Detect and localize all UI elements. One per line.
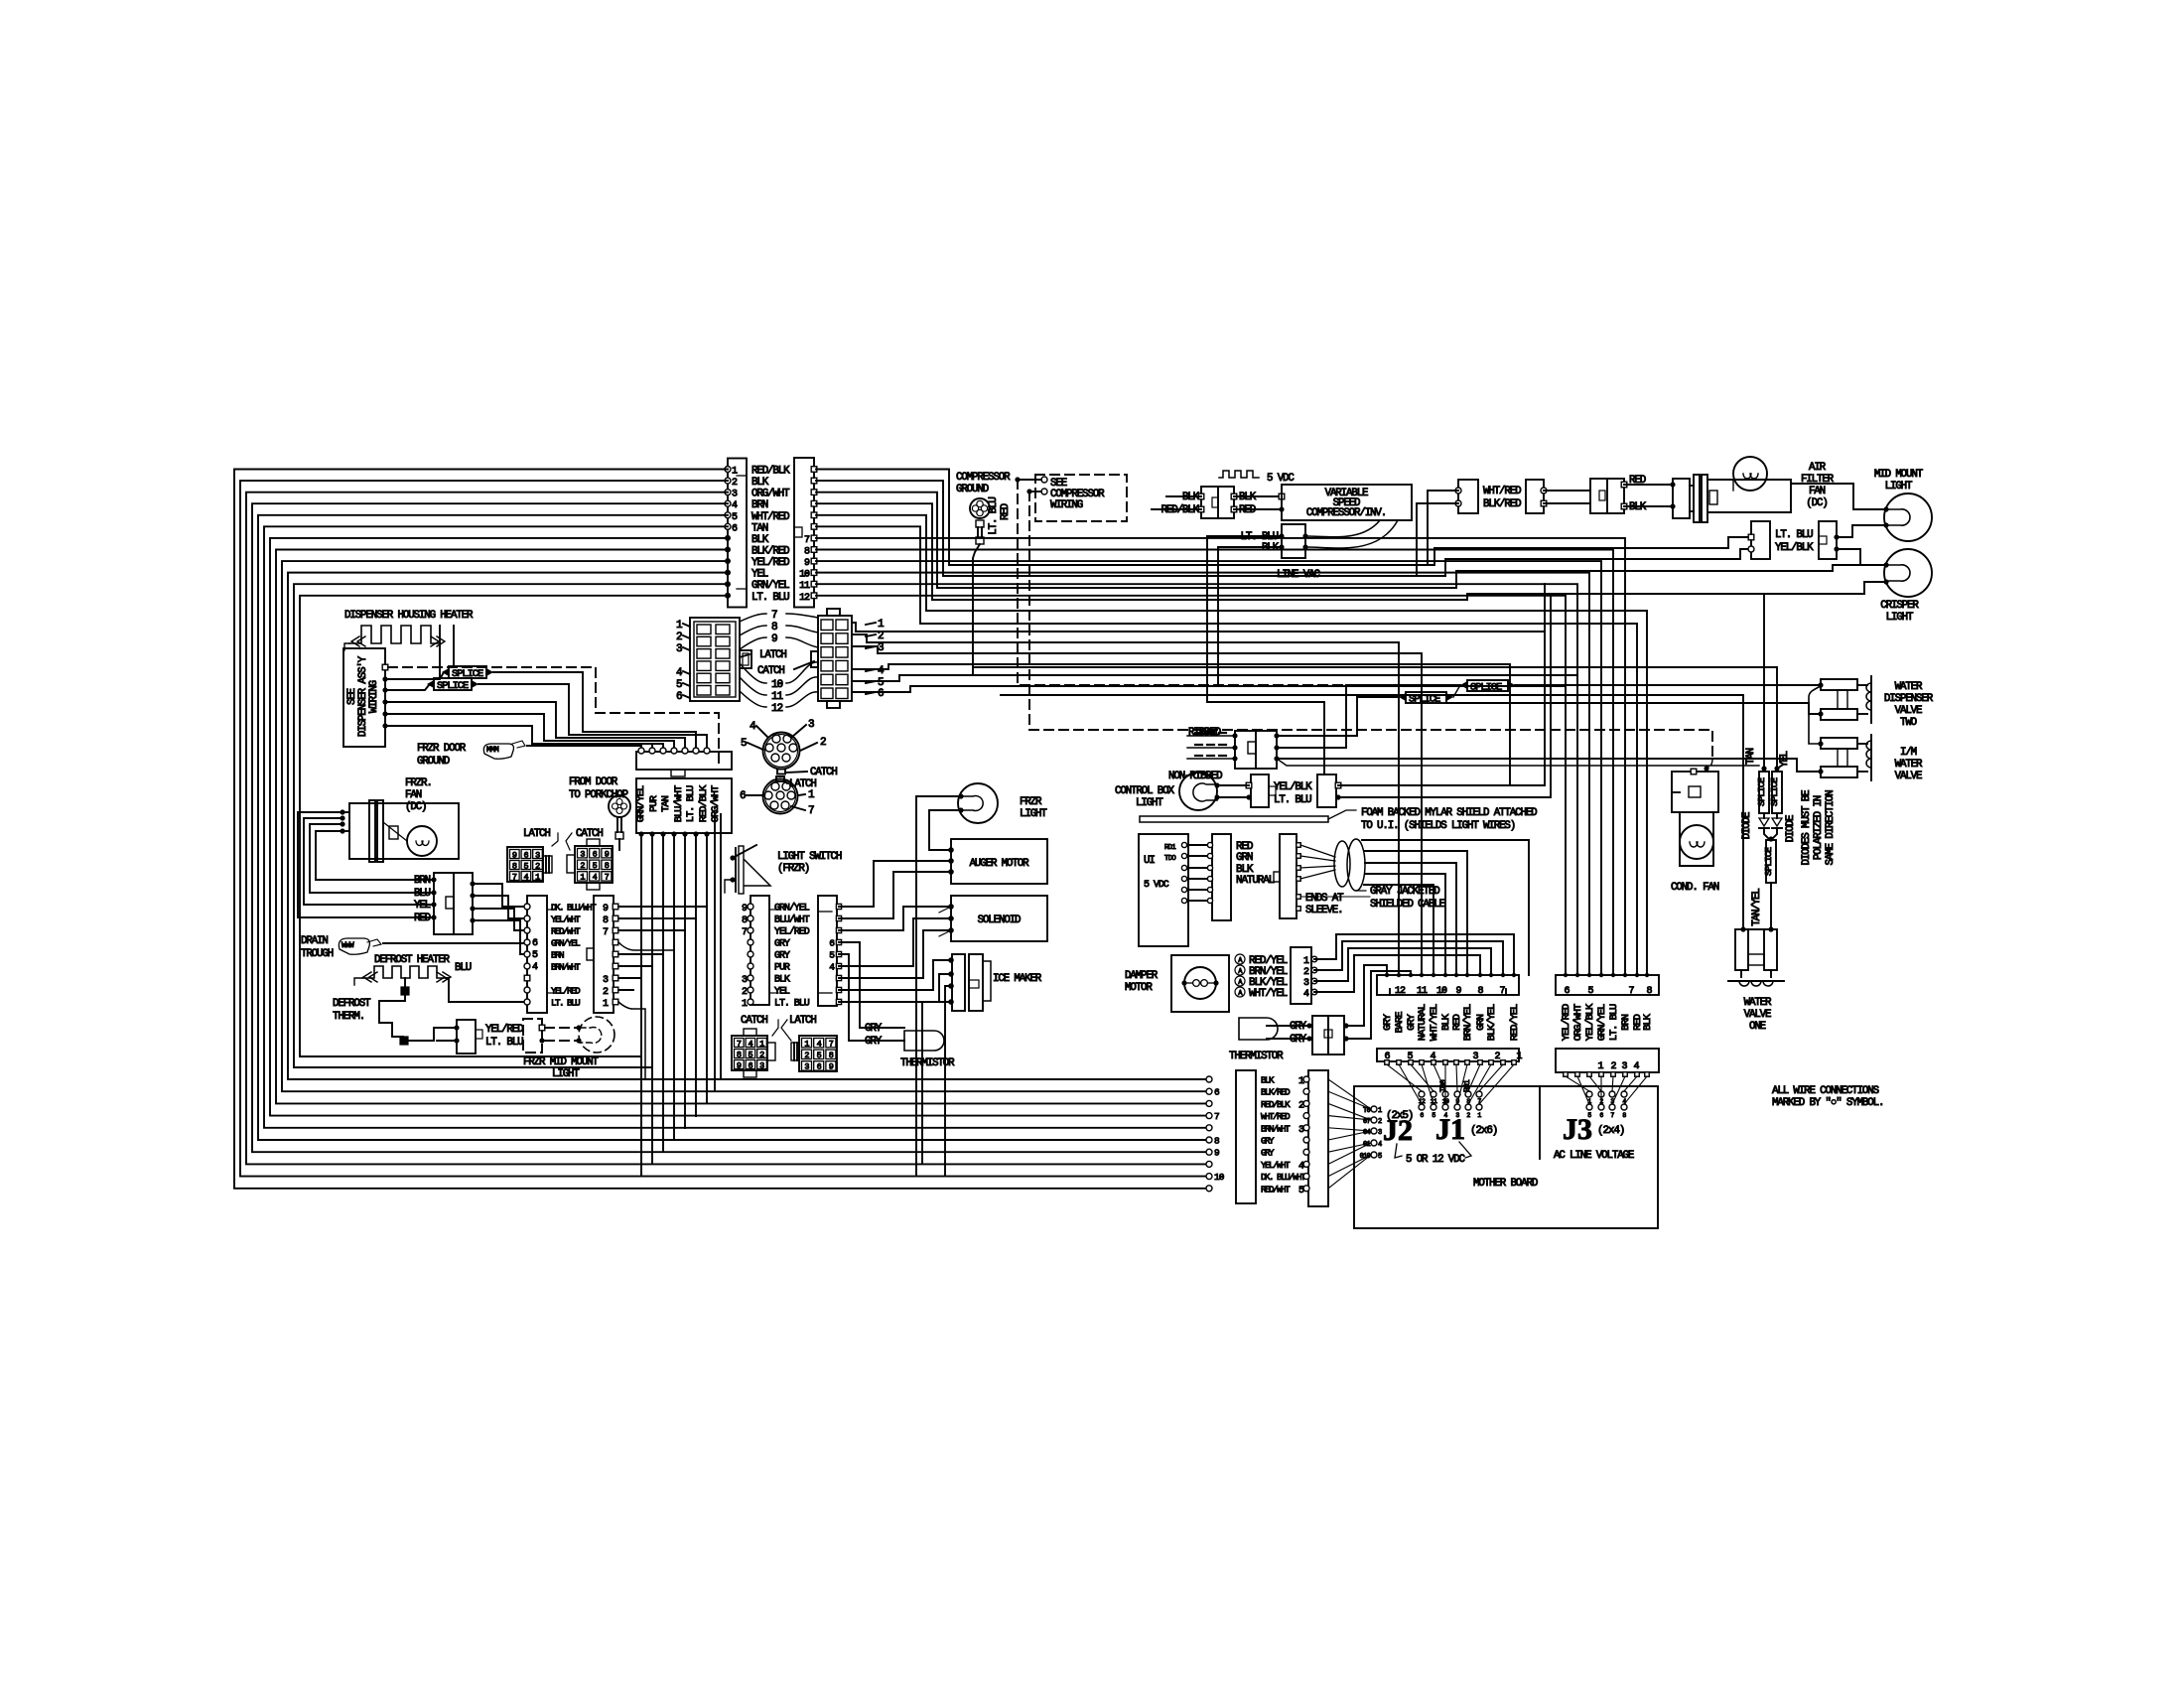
strip S1 row 7 bbox=[748, 975, 753, 981]
svg-text:LATCH: LATCH bbox=[789, 1015, 816, 1027]
svg-text:BLK: BLK bbox=[1261, 1075, 1275, 1086]
UI strip pin bbox=[1207, 865, 1212, 870]
svg-text:LT. BLU: LT. BLU bbox=[1274, 794, 1311, 806]
svg-text:(FRZR): (FRZR) bbox=[777, 863, 809, 875]
strip L2 pin row 2 bbox=[613, 915, 618, 921]
control box light bulb bbox=[1179, 773, 1217, 810]
J3 grid pins bbox=[1586, 1091, 1592, 1097]
pin 4 left bbox=[725, 500, 731, 506]
svg-text:SLEEVE.: SLEEVE. bbox=[1305, 905, 1342, 916]
frzr fan wires (U-routes) bbox=[298, 812, 434, 917]
strip L1 pin row 9 bbox=[524, 999, 530, 1005]
J1 bottom pin bbox=[1409, 1060, 1414, 1065]
svg-text:ORG/WHT: ORG/WHT bbox=[751, 489, 790, 500]
grid connector GB (9 pin) bbox=[575, 846, 613, 883]
connector LINE VAC bbox=[1282, 524, 1305, 558]
5 VDC squarewave symbol bbox=[1219, 471, 1259, 478]
fan-in lines to shield bbox=[1300, 845, 1335, 857]
latch tab grid-A bbox=[740, 650, 751, 668]
mid mount light bulb bbox=[1884, 493, 1932, 541]
svg-text:WHT/YEL: WHT/YEL bbox=[1429, 1004, 1440, 1041]
wire WHT/RED down bbox=[1428, 491, 1458, 565]
porkchop bottom pin 7 bbox=[704, 831, 709, 836]
svg-text:UI: UI bbox=[1144, 855, 1155, 867]
wire S2-auger3 bbox=[839, 872, 951, 918]
svg-text:SOLENOID: SOLENOID bbox=[978, 914, 1021, 926]
svg-text:YEL: YEL bbox=[751, 569, 768, 581]
svg-text:BARE: BARE bbox=[1394, 1012, 1406, 1034]
sleeve pin bbox=[1297, 843, 1301, 848]
svg-text:TO U.I. (SHIELDS LIGHT WIRES): TO U.I. (SHIELDS LIGHT WIRES) bbox=[1361, 820, 1515, 832]
wire lt.blu link bbox=[437, 1040, 457, 1042]
svg-text:LT. BLU: LT. BLU bbox=[751, 592, 789, 604]
strip L1 pin row 8 bbox=[524, 987, 530, 993]
circled-A labels bbox=[1235, 954, 1245, 964]
J2 right row 5 bbox=[1303, 1125, 1309, 1131]
svg-text:BLK: BLK bbox=[1629, 501, 1647, 513]
svg-text:BLK: BLK bbox=[751, 477, 769, 489]
svg-text:(2x5): (2x5) bbox=[1386, 1110, 1413, 1122]
wire S2-gry1 bbox=[839, 942, 904, 1028]
svg-text:GRY: GRY bbox=[865, 1023, 883, 1035]
wire main-right 12 bbox=[816, 596, 1566, 975]
ribbed wires bbox=[1187, 735, 1233, 737]
wire to crisper top bbox=[1837, 549, 1886, 565]
defrost therm body bbox=[401, 987, 409, 995]
svg-text:MARKED BY "○" SYMBOL.: MARKED BY "○" SYMBOL. bbox=[1772, 1097, 1883, 1109]
svg-text:LIGHT: LIGHT bbox=[1886, 612, 1914, 624]
connector strip S1 bbox=[751, 896, 769, 1005]
svg-text:TAN: TAN bbox=[660, 795, 672, 811]
box VARIABLE SPEED COMPRESSOR/INV. bbox=[1282, 485, 1412, 520]
pin 7 left bbox=[725, 535, 731, 541]
wire defrost therm out bbox=[408, 1028, 457, 1041]
svg-text:MOTHER BOARD: MOTHER BOARD bbox=[1473, 1178, 1538, 1190]
svg-text:TROUGH: TROUGH bbox=[301, 948, 334, 960]
wire main-right 10 bbox=[816, 573, 1589, 975]
cond fan connector bbox=[1672, 772, 1718, 812]
pin 7 right bbox=[811, 535, 817, 541]
shield output wires bbox=[1362, 840, 1529, 975]
svg-text:BLK/YEL: BLK/YEL bbox=[1486, 1004, 1498, 1041]
svg-text:RED: RED bbox=[414, 913, 431, 924]
svg-text:T00: T00 bbox=[1439, 1079, 1448, 1092]
UI strip pin bbox=[1207, 898, 1212, 903]
wire harness-left 4 bbox=[252, 503, 1206, 1152]
porkchop bottom pin 6 bbox=[693, 831, 698, 836]
connector frzr-fan harness bbox=[434, 873, 473, 934]
connector lt.blu-yel/blk left bbox=[1751, 521, 1770, 559]
I/M water valve body bbox=[1821, 738, 1857, 749]
pin 2 left bbox=[725, 478, 731, 484]
J1 bottom pin bbox=[1443, 1060, 1448, 1065]
pin 3 left bbox=[725, 490, 731, 495]
grid GA tab bbox=[543, 856, 552, 873]
wire main-right 5 bbox=[816, 515, 1647, 975]
svg-text:DISPENSER HOUSING HEATER: DISPENSER HOUSING HEATER bbox=[344, 610, 474, 622]
connector J-MAIN left half bbox=[728, 459, 747, 608]
wire porkchop-down 1 bbox=[640, 834, 642, 1176]
svg-text:BLK: BLK bbox=[1642, 1013, 1654, 1030]
svg-text:CATCH: CATCH bbox=[576, 828, 603, 840]
connector WHT/RED-BLK/RED left bbox=[1458, 480, 1478, 513]
water valve one coil bbox=[1728, 980, 1784, 982]
dispenser pin 3 bbox=[382, 687, 387, 692]
svg-text:6: 6 bbox=[676, 691, 682, 703]
wire ice3 down bbox=[945, 986, 951, 1176]
strip S2 row 5 bbox=[836, 951, 841, 956]
J1 top pin bbox=[1443, 973, 1447, 977]
jumper wire 11 bbox=[740, 677, 766, 695]
wire splice3 to water valve one bbox=[1770, 883, 1772, 929]
cond fan motor bbox=[1680, 825, 1713, 859]
strip L2 pin row 4 bbox=[613, 939, 618, 945]
wire frzr door ground bbox=[527, 746, 641, 749]
J3 top pin bbox=[1645, 973, 1649, 977]
wires to strip L1 bbox=[473, 884, 526, 907]
thermistor bulb bbox=[904, 1031, 944, 1051]
connector compressor bbox=[1201, 487, 1234, 518]
J1 top pin bbox=[1420, 973, 1424, 977]
box DAMPER MOTOR bbox=[1171, 955, 1229, 1012]
J3 bottom pin bbox=[1623, 1072, 1628, 1077]
pin 1 right bbox=[811, 467, 817, 473]
svg-text:FRZR DOOR: FRZR DOOR bbox=[417, 743, 467, 755]
J1 bottom pin bbox=[1420, 1060, 1425, 1065]
svg-text:COMPRESSOR/INV.: COMPRESSOR/INV. bbox=[1306, 507, 1386, 519]
svg-text:LIGHT: LIGHT bbox=[1020, 808, 1047, 820]
svg-text:FAN: FAN bbox=[405, 789, 422, 801]
wire harness-left 3 bbox=[246, 492, 1206, 1165]
strip S1 row 9 bbox=[748, 999, 753, 1005]
UI strip pin bbox=[1207, 876, 1212, 881]
strip L1 pin row 4 bbox=[524, 939, 530, 945]
wire S2-solenoid2 bbox=[839, 918, 951, 966]
J2 row 10 bbox=[1206, 1186, 1212, 1192]
strip L1 pin row 3 bbox=[524, 927, 530, 933]
defrost heater arrows bbox=[363, 972, 371, 982]
porkchop box1 tab bbox=[671, 770, 685, 776]
wire RED/BLK from main bbox=[1152, 508, 1201, 510]
svg-text:YEL/RED: YEL/RED bbox=[1561, 1004, 1572, 1041]
crisper light bulb bbox=[1884, 549, 1932, 597]
J1 bottom strip bbox=[1377, 1049, 1519, 1061]
wire valve two to I/M valve bbox=[1809, 686, 1821, 744]
J2 right box bbox=[1308, 1070, 1328, 1206]
jumper wire 7 bbox=[740, 614, 766, 622]
svg-text:DISPENSER: DISPENSER bbox=[1884, 693, 1934, 705]
box SOLENOID bbox=[951, 896, 1047, 941]
svg-text:CATCH: CATCH bbox=[757, 665, 784, 677]
J1 bottom pin bbox=[1501, 1060, 1506, 1065]
svg-text:SAME DIRECTION: SAME DIRECTION bbox=[1825, 790, 1837, 866]
svg-text:RED/YEL: RED/YEL bbox=[1509, 1004, 1521, 1041]
svg-text:10: 10 bbox=[1436, 986, 1447, 997]
J1 fan diagonals bbox=[1387, 1064, 1422, 1091]
curved wires inverter to line vac bbox=[1307, 520, 1380, 537]
svg-text:(DC): (DC) bbox=[1806, 497, 1827, 509]
shield ellipses bbox=[1334, 841, 1350, 887]
strip S1 row 1 bbox=[748, 904, 753, 910]
wire gridB-1 bbox=[852, 623, 1545, 632]
svg-text:FRZR.: FRZR. bbox=[405, 777, 432, 789]
wire gridB-2 bbox=[852, 634, 1399, 975]
diode 2 bbox=[1776, 813, 1778, 818]
svg-text:YEL/WHT: YEL/WHT bbox=[551, 914, 581, 925]
J1 bottom pin bbox=[1512, 1060, 1517, 1065]
air filter fan motor bbox=[1733, 457, 1767, 491]
svg-text:7: 7 bbox=[1214, 1111, 1219, 1122]
grid GC side tab bbox=[767, 1043, 775, 1060]
svg-text:FOAM BACKED MYLAR SHIELD ATTAC: FOAM BACKED MYLAR SHIELD ATTACHED bbox=[1361, 807, 1537, 819]
connector ctrl-light right bbox=[1317, 774, 1336, 807]
svg-text:SPLICE: SPLICE bbox=[437, 680, 469, 692]
wire ice4 down bbox=[922, 1002, 951, 1164]
J3 top strip bbox=[1556, 975, 1659, 995]
dispenser housing heater element bbox=[349, 626, 440, 643]
wire main-right 7 bbox=[816, 538, 1625, 975]
splice 2 (horizontal) bbox=[388, 685, 429, 690]
svg-text:TWO: TWO bbox=[1900, 717, 1917, 729]
svg-text:LATCH: LATCH bbox=[759, 649, 786, 661]
pin 1 left bbox=[725, 467, 731, 473]
J3 bottom pin bbox=[1635, 1072, 1640, 1077]
svg-text:GRAY JACKETED: GRAY JACKETED bbox=[1370, 886, 1439, 898]
connector lt.blu-yel/blk right bbox=[1819, 521, 1837, 559]
defrost heater element bbox=[362, 966, 446, 978]
J1 top pin bbox=[1454, 973, 1458, 977]
svg-text:COMPRESSOR: COMPRESSOR bbox=[956, 472, 1011, 484]
svg-text:CATCH: CATCH bbox=[741, 1015, 767, 1027]
svg-text:YEL/BLK: YEL/BLK bbox=[1775, 542, 1814, 554]
J2 fan diagonals bbox=[1328, 1079, 1371, 1109]
svg-text:3: 3 bbox=[1378, 1129, 1382, 1137]
frzr fan pins bbox=[340, 809, 344, 814]
svg-text:RED/BLK: RED/BLK bbox=[751, 466, 790, 478]
svg-text:AUGER MOTOR: AUGER MOTOR bbox=[970, 858, 1029, 870]
svg-text:RED/BLK: RED/BLK bbox=[1161, 504, 1200, 516]
grid connector GD (latch) bbox=[799, 1036, 837, 1071]
wire main-right 8 bbox=[816, 549, 1613, 975]
pin 5 right bbox=[811, 512, 817, 518]
wire dispenser 6 bbox=[388, 726, 663, 749]
J1 bottom pin bbox=[1489, 1060, 1494, 1065]
svg-text:5: 5 bbox=[676, 679, 682, 691]
wire harness-left 12 bbox=[300, 596, 728, 1056]
svg-text:2: 2 bbox=[676, 632, 682, 643]
pin 2 right bbox=[811, 478, 817, 484]
wire harness-left 1 bbox=[234, 470, 1206, 1189]
svg-text:THERM.: THERM. bbox=[333, 1011, 364, 1023]
connector strip L1 bbox=[527, 896, 547, 1013]
wire TAN down bbox=[1763, 594, 1765, 769]
svg-text:YEL/RED: YEL/RED bbox=[774, 926, 810, 938]
svg-text:ORG/WHT: ORG/WHT bbox=[1572, 1004, 1584, 1041]
dispenser pin 6 bbox=[382, 723, 387, 728]
wire porkchop-down 4 bbox=[673, 834, 675, 1140]
svg-text:BRN: BRN bbox=[751, 499, 768, 511]
strip S1 row 6 bbox=[748, 963, 753, 969]
J1 top pin bbox=[1385, 973, 1389, 977]
strip L1 pin row 1 bbox=[524, 904, 530, 910]
svg-text:LIGHT: LIGHT bbox=[552, 1068, 580, 1080]
frzr fan motor bbox=[407, 826, 437, 856]
svg-text:LT. BLU: LT. BLU bbox=[1775, 529, 1813, 541]
damper motor symbol bbox=[1184, 967, 1216, 999]
frzr mid mount dashed wires bbox=[545, 1027, 577, 1029]
svg-text:SPLICE: SPLICE bbox=[1756, 777, 1767, 807]
svg-text:LIGHT: LIGHT bbox=[1136, 797, 1163, 809]
grid GC top tab bbox=[744, 1029, 756, 1036]
pin 10 right bbox=[811, 570, 817, 576]
svg-text:NATURAL: NATURAL bbox=[1417, 1004, 1429, 1041]
sleeve pin bbox=[1297, 866, 1301, 871]
J1 top pin bbox=[1478, 973, 1482, 977]
svg-text:LIGHT SWITCH: LIGHT SWITCH bbox=[777, 851, 842, 863]
valve two coil bbox=[1870, 676, 1872, 723]
connector grid-B body bbox=[818, 616, 852, 701]
svg-text:5 OR 12 VDC: 5 OR 12 VDC bbox=[1406, 1154, 1465, 1166]
J3 top pin bbox=[1635, 973, 1639, 977]
svg-text:VALVE: VALVE bbox=[1895, 705, 1922, 717]
svg-text:RD1: RD1 bbox=[1164, 844, 1176, 852]
svg-text:WHT/YEL: WHT/YEL bbox=[1249, 988, 1288, 1000]
svg-text:ALL WIRE CONNECTIONS: ALL WIRE CONNECTIONS bbox=[1772, 1085, 1879, 1097]
J1 bottom pin bbox=[1385, 1060, 1390, 1065]
mother board box bbox=[1354, 1086, 1658, 1228]
J3 top pin bbox=[1587, 973, 1591, 977]
J2 right row 1 bbox=[1303, 1076, 1309, 1082]
svg-text:GRY: GRY bbox=[1261, 1136, 1275, 1147]
svg-text:THERMISTOR: THERMISTOR bbox=[900, 1057, 955, 1069]
strip L2 pin row 1 bbox=[613, 904, 618, 910]
connector pair right half bbox=[1526, 480, 1544, 513]
wire harness-left 6 bbox=[264, 526, 1206, 1127]
air filter fan bracket bbox=[1673, 479, 1690, 518]
UI strip pin bbox=[1207, 853, 1212, 858]
svg-text:GRN/YEL: GRN/YEL bbox=[751, 580, 789, 592]
svg-text:YEL/RED: YEL/RED bbox=[551, 986, 581, 997]
svg-text:YEL: YEL bbox=[414, 900, 431, 912]
pin 5 left bbox=[725, 512, 731, 518]
wire porkchop-down 2 bbox=[651, 834, 653, 1164]
strip L2 pin row 8 bbox=[613, 987, 618, 993]
jumper wire 10 bbox=[740, 663, 766, 683]
dispenser pin 2 bbox=[382, 676, 387, 681]
wire BLK to inverter bbox=[1234, 495, 1282, 497]
J2 harness left label box bbox=[1236, 1070, 1256, 1203]
J1 top pin bbox=[1409, 973, 1413, 977]
cond fan legs bbox=[1680, 812, 1713, 866]
J3 top pin bbox=[1611, 973, 1615, 977]
UI pin bbox=[1181, 865, 1186, 870]
svg-text:YEL/WHT: YEL/WHT bbox=[1261, 1160, 1291, 1171]
wire gridB-5 bbox=[852, 675, 1577, 681]
sleeve pin bbox=[1297, 854, 1301, 859]
svg-text:12: 12 bbox=[1395, 986, 1406, 997]
J2 right row 10 bbox=[1303, 1186, 1309, 1192]
svg-text:GRN: GRN bbox=[1236, 852, 1253, 864]
wire main-right 6 bbox=[816, 526, 1637, 975]
wire RED dashed bbox=[1026, 489, 1031, 493]
svg-text:NATURAL: NATURAL bbox=[1236, 875, 1275, 887]
svg-text:FRZR: FRZR bbox=[1020, 796, 1042, 808]
svg-text:10: 10 bbox=[1214, 1172, 1225, 1183]
strip L2 pin row 3 bbox=[613, 927, 618, 933]
svg-text:DRAIN: DRAIN bbox=[301, 935, 328, 947]
svg-text:10: 10 bbox=[799, 570, 810, 581]
svg-text:J1: J1 bbox=[1435, 1113, 1465, 1146]
svg-text:BRN: BRN bbox=[414, 875, 431, 887]
J1 bottom pin bbox=[1432, 1060, 1436, 1065]
J2 row 2 bbox=[1206, 1088, 1212, 1094]
svg-text:BLK: BLK bbox=[1239, 492, 1257, 503]
wire harness-left 5 bbox=[258, 515, 1206, 1140]
J3 bottom pin bbox=[1575, 1072, 1580, 1077]
porkchop bottom pin 3 bbox=[660, 831, 665, 836]
svg-text:GRN/YEL: GRN/YEL bbox=[635, 785, 647, 822]
svg-text:BLK/RED: BLK/RED bbox=[1261, 1087, 1291, 1098]
pin 12 left bbox=[725, 593, 731, 599]
strip L1 pin row 5 bbox=[524, 951, 530, 957]
svg-text:8: 8 bbox=[771, 622, 777, 633]
svg-text:(2x6): (2x6) bbox=[1470, 1125, 1497, 1137]
svg-text:WATER: WATER bbox=[1895, 681, 1923, 693]
svg-text:5 VDC: 5 VDC bbox=[1144, 880, 1169, 891]
svg-text:LT. BLU: LT. BLU bbox=[774, 999, 810, 1010]
porkchop connector box 1 bbox=[636, 752, 732, 770]
svg-text:BLU/WHT: BLU/WHT bbox=[774, 914, 810, 926]
porkchop bottom pin 2 bbox=[649, 831, 654, 836]
J2 right row 3 bbox=[1303, 1100, 1309, 1106]
wire harness-left 7 bbox=[270, 538, 1206, 1116]
wire drain trough bbox=[383, 942, 526, 944]
grid connector GC (catch) bbox=[732, 1036, 767, 1070]
svg-text:2: 2 bbox=[1378, 1118, 1382, 1126]
svg-text:BRN: BRN bbox=[1620, 1014, 1632, 1030]
wire BLK to fan bbox=[1624, 505, 1673, 507]
grid-B bottom tab bbox=[827, 701, 840, 708]
wire harness-left 9 bbox=[282, 561, 1206, 1091]
svg-text:(2x4): (2x4) bbox=[1597, 1125, 1624, 1137]
porkchop bottom pin 5 bbox=[682, 831, 687, 836]
J1 bottom pin bbox=[1454, 1060, 1459, 1065]
svg-text:5 VDC: 5 VDC bbox=[1267, 473, 1295, 485]
svg-text:LT. BLU: LT. BLU bbox=[988, 497, 1000, 535]
svg-text:WATER: WATER bbox=[1744, 997, 1772, 1009]
svg-text:DIODE: DIODE bbox=[1785, 815, 1797, 842]
strip S2 row 6 bbox=[836, 963, 841, 968]
svg-text:RED/BLK: RED/BLK bbox=[1261, 1099, 1291, 1110]
strip L2 pin row 6 bbox=[613, 963, 618, 969]
wire harness-left 11 bbox=[294, 584, 728, 1067]
svg-text:GRY: GRY bbox=[774, 951, 790, 962]
svg-text:YEL/BLK: YEL/BLK bbox=[1274, 781, 1312, 793]
wire porkchop-down 8 bbox=[714, 814, 716, 1091]
svg-text:LIGHT: LIGHT bbox=[1885, 481, 1913, 492]
J3 bottom strip bbox=[1556, 1049, 1659, 1072]
svg-text:LATCH: LATCH bbox=[523, 828, 550, 840]
strip S1 row 5 bbox=[748, 951, 753, 957]
strip L1 pin row 7 bbox=[524, 975, 530, 981]
svg-text:GRN/YEL: GRN/YEL bbox=[774, 903, 810, 914]
J2 row 1 bbox=[1206, 1076, 1212, 1082]
wire main-right 2 bbox=[816, 481, 1749, 576]
sleeve lower wires to J1 bbox=[1300, 896, 1370, 898]
svg-text:BLU: BLU bbox=[414, 888, 431, 900]
svg-text:GROUND: GROUND bbox=[417, 756, 450, 768]
svg-text:RED: RED bbox=[1000, 503, 1012, 520]
